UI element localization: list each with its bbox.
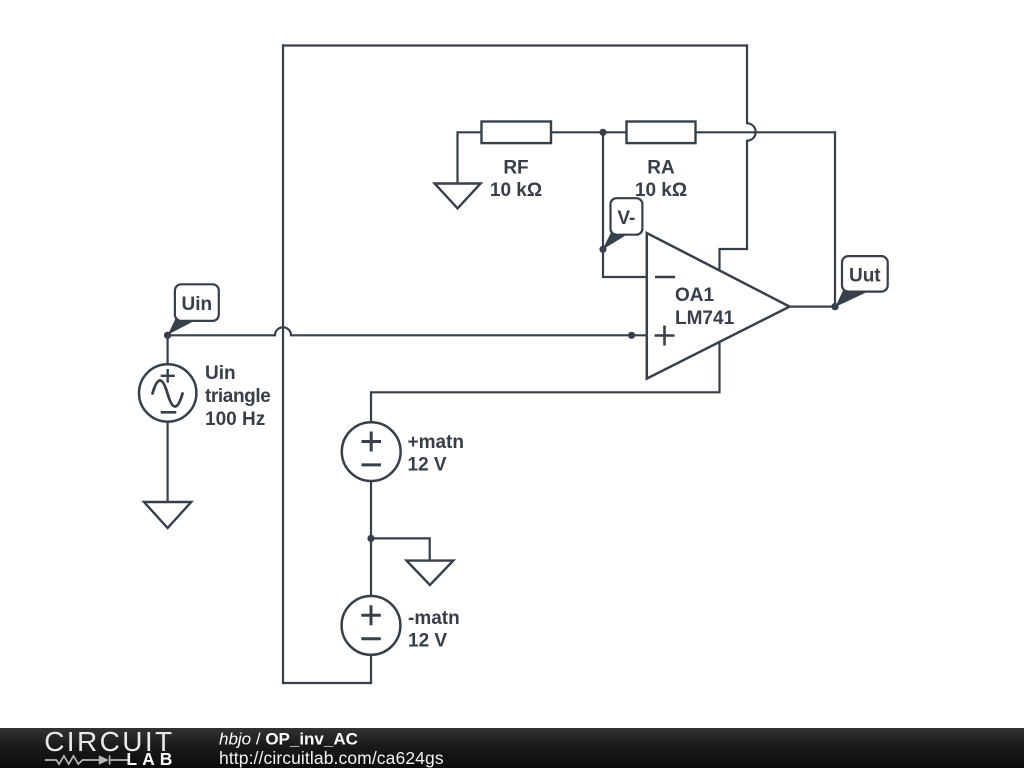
node dot supply junction: [367, 535, 374, 542]
footer title hbjo / OP_inv_AC: [219, 730, 358, 749]
ground (Uin): [144, 502, 191, 528]
wire right vertical with hop over feedback wire: [747, 46, 756, 250]
wire -matn bottom to bottom rail: [370, 655, 372, 683]
wire RA right lead to output vertical: [696, 131, 836, 133]
wire junction to -matn top: [370, 538, 372, 596]
wire left tall vertical (bottom rail return): [282, 46, 284, 684]
logo LAB wordmark: [126, 749, 177, 768]
source -matn labels: [408, 608, 460, 652]
source -matn plus mark: [361, 605, 381, 625]
svg-text:hbjo / OP_inv_AC: hbjo / OP_inv_AC: [219, 730, 358, 749]
node junction dot RF/RA: [599, 129, 606, 136]
label flag Uin: [175, 284, 219, 321]
svg-text:http://circuitlab.com/ca624gs: http://circuitlab.com/ca624gs: [219, 748, 444, 768]
label flag Uin tail: [168, 316, 195, 335]
ground (RF): [435, 184, 481, 209]
source +matn minus mark: [362, 463, 382, 466]
wire node to RA left lead: [603, 131, 627, 133]
wire op-amp top supply jog: [720, 249, 748, 272]
logo CIRCUIT wordmark: [44, 726, 174, 757]
svg-text:LAB: LAB: [126, 749, 177, 768]
wire +matn bottom to junction: [370, 481, 372, 538]
wire non-inverting input with hop over left rail: [168, 327, 647, 335]
label flag V-: [611, 198, 643, 235]
node dot V- anchor: [599, 246, 606, 253]
resistor RF: [482, 122, 552, 144]
source -matn: [342, 596, 401, 655]
source Uin sine wave: [153, 381, 183, 407]
logo resistor zigzag and diode: [45, 755, 128, 764]
footer bar: [0, 728, 1024, 768]
wire Uin source bottom lead to ground: [167, 422, 169, 502]
node dot Uut anchor: [831, 303, 838, 310]
source -matn minus mark: [361, 637, 381, 640]
node dot non-inverting input: [628, 332, 635, 339]
wire output feedback vertical: [834, 132, 836, 306]
wire bottom rail: [283, 682, 371, 684]
source +matn: [342, 422, 401, 481]
source Uin minus mark: [161, 411, 177, 414]
resistor RA: [627, 122, 696, 144]
label flag Uut tail: [835, 289, 865, 308]
resistor RF labels: [490, 158, 542, 202]
resistor RA labels: [635, 158, 687, 202]
footer url: [219, 748, 444, 768]
op-amp minus input symbol: [655, 276, 675, 279]
wire op-amp output: [790, 306, 835, 308]
label flag Uut: [842, 256, 888, 292]
wire inverting input drop: [603, 132, 647, 277]
label flag V- tail: [603, 231, 628, 250]
source Uin labels: [205, 363, 270, 430]
op-amp OA1: [647, 233, 790, 379]
wire op-amp bottom supply to +matn: [371, 342, 720, 423]
op-amp OA1 labels: [675, 285, 735, 329]
wire RF right lead to node V- top: [551, 131, 603, 133]
source +matn plus mark: [362, 432, 382, 452]
ground (supply mid): [407, 561, 454, 585]
source Uin plus mark: [161, 369, 175, 383]
source Uin (sine): [139, 364, 196, 421]
wire RF left lead to ground: [458, 132, 482, 183]
wire top rail from left vertical to op-amp V+ branch: [283, 44, 747, 46]
wire Uin source top lead: [167, 335, 169, 364]
source +matn labels: [408, 432, 465, 476]
op-amp plus input symbol: [655, 326, 675, 346]
node dot Uin anchor: [164, 332, 171, 339]
wire junction to mid ground: [371, 538, 430, 560]
